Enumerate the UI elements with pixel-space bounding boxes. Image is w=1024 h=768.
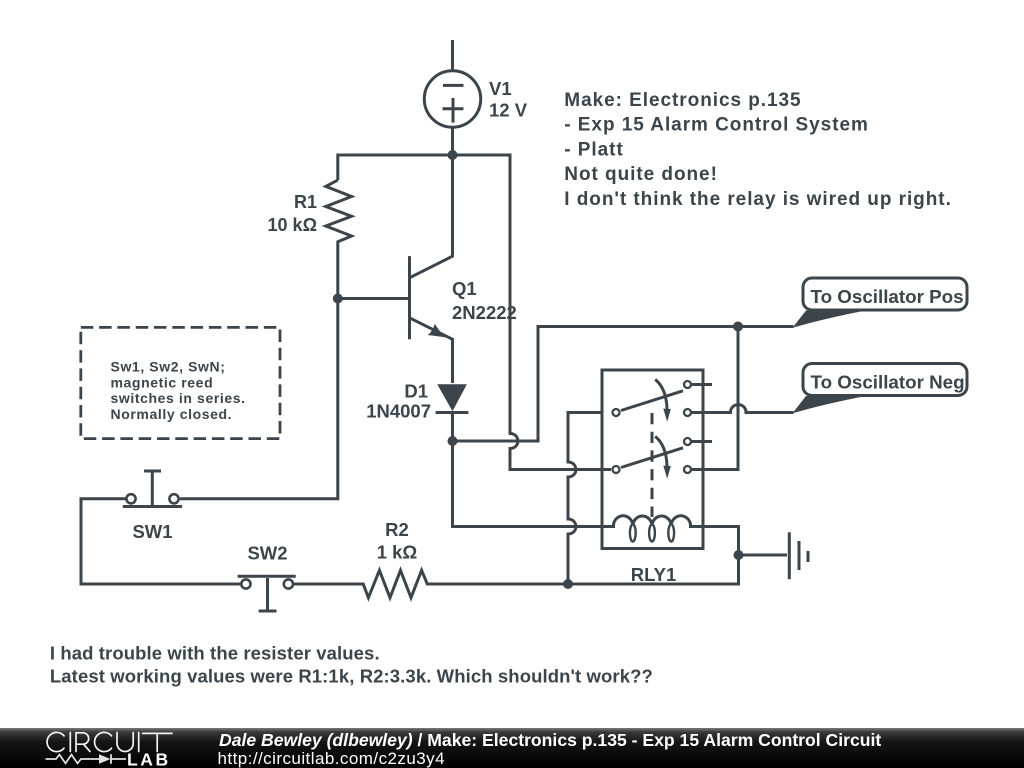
svg-text:Latest working values were R1:: Latest working values were R1:1k, R2:3.3… (50, 666, 653, 687)
svg-text:To Oscillator Neg: To Oscillator Neg (811, 371, 965, 392)
svg-text:10 kΩ: 10 kΩ (268, 215, 317, 235)
svg-text:magnetic reed: magnetic reed (111, 374, 214, 390)
svg-text:1N4007: 1N4007 (366, 401, 431, 422)
svg-text:Q1: Q1 (452, 278, 477, 299)
svg-text:R1: R1 (294, 192, 317, 212)
svg-text:- Exp 15 Alarm Control System: - Exp 15 Alarm Control System (564, 115, 869, 136)
svg-text:RLY1: RLY1 (631, 564, 677, 585)
svg-text:R2: R2 (385, 519, 409, 540)
svg-text:http://circuitlab.com/c2zu3y4: http://circuitlab.com/c2zu3y4 (218, 749, 446, 768)
svg-text:Sw1, Sw2, SwN;: Sw1, Sw2, SwN; (111, 359, 226, 375)
svg-text:LAB: LAB (127, 750, 171, 768)
svg-text:switches in series.: switches in series. (111, 390, 246, 406)
svg-text:I had trouble with the resiste: I had trouble with the resister values. (50, 643, 380, 664)
svg-text:D1: D1 (404, 381, 428, 402)
svg-text:I don't think the relay is wir: I don't think the relay is wired up righ… (564, 189, 952, 210)
svg-text:Not quite done!: Not quite done! (564, 164, 718, 185)
svg-text:2N2222: 2N2222 (452, 302, 517, 323)
svg-text:Make: Electronics p.135: Make: Electronics p.135 (564, 90, 801, 111)
svg-text:- Platt: - Platt (564, 139, 623, 160)
svg-text:SW2: SW2 (247, 543, 287, 564)
svg-text:12 V: 12 V (489, 100, 528, 121)
svg-text:Normally closed.: Normally closed. (111, 406, 233, 422)
svg-text:Dale Bewley (dlbewley) / Make:: Dale Bewley (dlbewley) / Make: Electroni… (219, 730, 881, 750)
svg-text:SW1: SW1 (132, 521, 172, 542)
svg-text:1 kΩ: 1 kΩ (377, 542, 418, 563)
svg-text:To Oscillator Pos: To Oscillator Pos (811, 286, 964, 307)
svg-text:V1: V1 (489, 78, 512, 99)
